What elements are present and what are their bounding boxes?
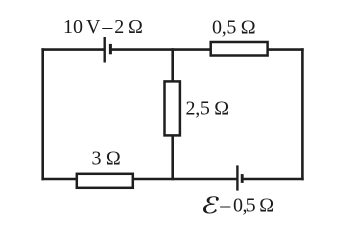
svg-text:0,5 Ω: 0,5 Ω bbox=[212, 17, 255, 39]
svg-text:3 Ω: 3 Ω bbox=[92, 148, 121, 170]
svg-text:–0,5Ω: –0,5Ω bbox=[219, 194, 274, 216]
svg-text:10V–2Ω: 10V–2Ω bbox=[63, 16, 143, 38]
svg-text:2,5 Ω: 2,5 Ω bbox=[186, 98, 229, 120]
